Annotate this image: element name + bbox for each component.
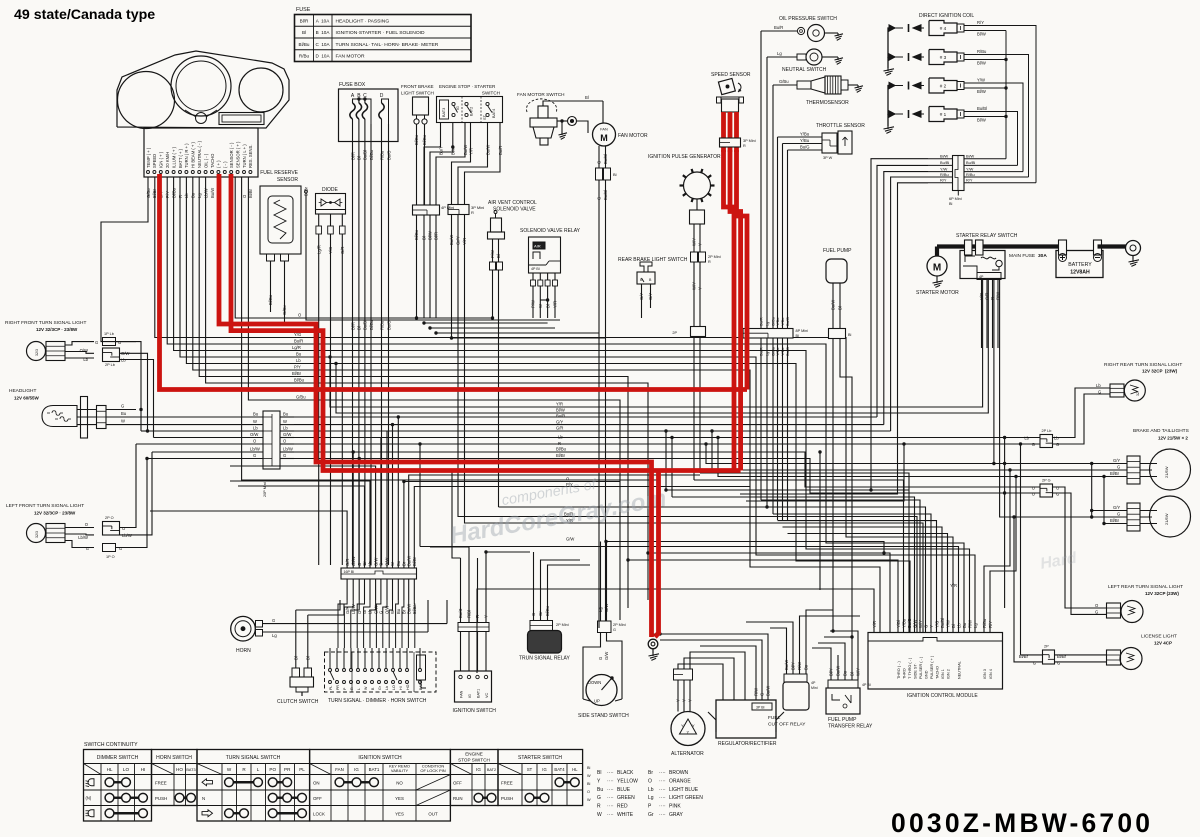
svg-text:M: M xyxy=(600,133,608,143)
fan switch side wire to ring terminal xyxy=(557,120,568,122)
svg-text:(N): (N) xyxy=(86,796,92,801)
svg-text:O: O xyxy=(648,778,652,784)
svg-text:Lb: Lb xyxy=(1096,383,1101,388)
svg-text:32: 32 xyxy=(1136,392,1140,396)
wire from fuel reserve sensor G/Bu xyxy=(284,261,286,322)
svg-text:FUSE: FUSE xyxy=(296,7,311,13)
svg-text:Y/W: Y/W xyxy=(977,78,985,83)
svg-text:SWITCH: SWITCH xyxy=(482,91,500,96)
svg-text:Y/W: Y/W xyxy=(945,620,950,628)
6P left wire Bu/Bl to lower band xyxy=(877,165,928,417)
svg-text:Lg: Lg xyxy=(648,795,654,801)
svg-text:# 4: # 4 xyxy=(940,26,947,31)
3P mini R connector xyxy=(448,205,469,215)
svg-text:DIMMER SWITCH: DIMMER SWITCH xyxy=(97,755,139,761)
svg-text:Lb: Lb xyxy=(296,358,301,363)
svg-text:C 10A: C 10A xyxy=(315,42,330,47)
svg-text:FAN: FAN xyxy=(335,767,344,772)
2P mini connector on pulse generator wires xyxy=(691,327,706,337)
svg-text:Bu/W: Bu/W xyxy=(210,188,215,198)
row y407 from starter relay wire xyxy=(330,280,983,407)
svg-text:Y: Y xyxy=(698,243,703,246)
starter switch sub-table xyxy=(498,750,583,806)
svg-text:3P BI: 3P BI xyxy=(756,706,765,710)
svg-text:Y/Bu: Y/Bu xyxy=(800,132,810,137)
svg-text:THRO ( - ): THRO ( - ) xyxy=(897,661,901,679)
svg-text:Bl/Bu: Bl/Bu xyxy=(294,378,305,383)
svg-text:Bl: Bl xyxy=(587,782,591,786)
svg-text:12V 60/55W: 12V 60/55W xyxy=(14,396,40,401)
svg-text:PUSH: PUSH xyxy=(501,796,513,801)
svg-text:ST: ST xyxy=(483,114,487,120)
svg-text:IG: IG xyxy=(468,694,472,698)
svg-text:MAIN FUSE: MAIN FUSE xyxy=(1009,253,1035,259)
front brake switch wires xyxy=(416,124,418,205)
svg-text:Y: Y xyxy=(698,287,703,290)
svg-text:RIGHT FRONT TURN SIGNAL LIGHT: RIGHT FRONT TURN SIGNAL LIGHT xyxy=(5,320,86,326)
svg-text:GRAY: GRAY xyxy=(669,812,683,818)
svg-text:4P: 4P xyxy=(979,275,984,279)
svg-text:Bl/Br: Bl/Br xyxy=(556,453,566,458)
svg-text:PINK: PINK xyxy=(669,804,681,810)
svg-text:R/Y: R/Y xyxy=(940,178,947,183)
ignition switch R wire to ICM Y/R pin xyxy=(477,589,874,673)
svg-text:FAN MOTOR SWITCH: FAN MOTOR SWITCH xyxy=(517,92,565,97)
red circuit: speed sensor bundle with jog xyxy=(724,150,735,471)
ground at oil pressure switch xyxy=(837,33,839,36)
svg-text:Bu: Bu xyxy=(396,608,401,614)
svg-text:G/R: G/R xyxy=(556,426,563,431)
svg-text:LEFT FRONT TURN SIGNAL LIGHT: LEFT FRONT TURN SIGNAL LIGHT xyxy=(6,503,84,509)
svg-text:# 3: # 3 xyxy=(940,55,947,60)
coil #3 wires xyxy=(964,54,990,56)
svg-text:Bl: Bl xyxy=(848,333,852,337)
svg-text:ENGINE STOP · STARTER: ENGINE STOP · STARTER xyxy=(439,84,496,89)
svg-text:BATT ( + ): BATT ( + ) xyxy=(178,148,183,168)
right rear signal staircase wires xyxy=(1053,388,1111,438)
svg-text:····: ···· xyxy=(607,770,614,776)
2P mini Bl connector on fuel pump wires xyxy=(829,329,846,339)
svg-text:Bl/Bu: Bl/Bu xyxy=(369,149,374,160)
svg-text:Bu/Bl: Bu/Bl xyxy=(603,190,608,200)
wire from front brake to 4P mini xyxy=(416,204,418,206)
turn signal vertical links on left xyxy=(140,410,142,432)
6P connector wire Bl/W xyxy=(928,158,953,160)
svg-text:Bu: Bu xyxy=(283,412,289,417)
svg-text:IG: IG xyxy=(476,767,481,772)
svg-text:W/Y: W/Y xyxy=(918,620,923,628)
svg-text:6P Mini: 6P Mini xyxy=(949,197,962,201)
svg-text:Bu: Bu xyxy=(296,352,302,357)
svg-text:····: ···· xyxy=(607,812,614,818)
svg-text:Bl/Bu: Bl/Bu xyxy=(369,319,374,330)
svg-text:Lb/W: Lb/W xyxy=(78,535,88,540)
svg-text:FUEL RESERVE: FUEL RESERVE xyxy=(260,170,298,176)
svg-text:G/W: G/W xyxy=(604,604,609,612)
svg-text:G: G xyxy=(1117,465,1120,470)
wire from x773 to ICM pin 931 xyxy=(773,514,931,633)
svg-text:FAN MOTOR: FAN MOTOR xyxy=(618,133,648,139)
air vent solenoid wires xyxy=(492,239,494,262)
svg-text:LOCK: LOCK xyxy=(313,811,325,816)
svg-text:2P: 2P xyxy=(672,331,677,335)
svg-text:SPEED: SPEED xyxy=(152,154,157,168)
16P wire O/W up xyxy=(386,431,388,568)
16P connector xyxy=(341,568,417,579)
thermosensor wire down xyxy=(772,85,774,514)
svg-text:TURN SIGNAL SWITCH: TURN SIGNAL SWITCH xyxy=(226,755,281,761)
svg-text:Lb: Lb xyxy=(1024,436,1029,441)
wire from x694 to ICM pin 903.5 xyxy=(694,480,904,633)
svg-text:Bl/W: Bl/W xyxy=(556,408,565,413)
16P wire G/W up xyxy=(230,466,376,568)
svg-text:FREE: FREE xyxy=(501,780,513,785)
svg-text:Lb/W: Lb/W xyxy=(351,556,356,566)
svg-text:LIGHT SWITCH: LIGHT SWITCH xyxy=(401,91,434,96)
svg-text:G: G xyxy=(121,404,124,409)
watermark xyxy=(444,465,668,549)
svg-text:Lg: Lg xyxy=(777,51,782,56)
speed sensor 3P connector over red xyxy=(720,138,741,147)
svg-text:LIGHT BLUE: LIGHT BLUE xyxy=(669,787,699,793)
svg-text:Y/R: Y/R xyxy=(462,238,467,245)
svg-text:Bu/R: Bu/R xyxy=(774,25,783,30)
svg-text:Bu/O: Bu/O xyxy=(386,150,391,160)
wire from x761 to ICM pin 920 xyxy=(761,500,920,633)
svg-text:G: G xyxy=(760,693,765,696)
wire from x498 to ICM pin 925.5 xyxy=(499,507,926,633)
svg-text:FUEL PUMP: FUEL PUMP xyxy=(823,248,852,254)
svg-text:W: W xyxy=(390,610,395,614)
fuel cut off relay wires xyxy=(786,640,788,674)
wire from cluster x173 via band row y350 to ICM xyxy=(174,177,970,633)
svg-text:Y: Y xyxy=(688,699,693,702)
engine stop switch contacts xyxy=(440,100,449,119)
svg-text:HEADLIGHT · PASSING: HEADLIGHT · PASSING xyxy=(336,18,390,24)
svg-text:G: G xyxy=(597,197,602,200)
svg-text:Y/R: Y/R xyxy=(556,402,563,407)
svg-text:Bu: Bu xyxy=(253,412,259,417)
svg-text:12V8AH: 12V8AH xyxy=(1070,270,1090,276)
svg-text:BAT4: BAT4 xyxy=(492,109,496,118)
svg-text:Lb: Lb xyxy=(83,357,88,362)
svg-text:SENSOR ( + ): SENSOR ( + ) xyxy=(235,141,240,168)
turn signal relay wires xyxy=(533,580,535,621)
row G/W to 2P Lb connector xyxy=(294,437,1040,439)
svg-text:R: R xyxy=(471,210,474,215)
16P connector lower wires xyxy=(346,579,348,600)
svg-text:W: W xyxy=(597,812,602,818)
svg-text:PULSER ( - ): PULSER ( - ) xyxy=(919,656,923,679)
fuel pump transfer relay xyxy=(826,688,860,714)
vertical x672 from band xyxy=(671,438,673,498)
svg-text:# 1: # 1 xyxy=(940,112,947,117)
svg-text:# 2: # 2 xyxy=(940,84,947,89)
svg-text:Bu/Bl: Bu/Bl xyxy=(940,160,949,165)
svg-text:TURN SIGNAL · DIMMER · HORN SW: TURN SIGNAL · DIMMER · HORN SWITCH xyxy=(328,698,427,704)
svg-text:····: ···· xyxy=(659,812,666,818)
svg-text:Bl: Bl xyxy=(545,304,550,308)
svg-text:O/W: O/W xyxy=(80,348,88,353)
svg-text:IGNITION SWITCH: IGNITION SWITCH xyxy=(453,708,497,714)
svg-text:Bl/R: Bl/R xyxy=(350,322,355,330)
svg-text:RES. SENS.: RES. SENS. xyxy=(248,144,253,168)
svg-text:12V 32/3CP · 23/8W: 12V 32/3CP · 23/8W xyxy=(36,327,78,332)
svg-text:IGN 4: IGN 4 xyxy=(989,669,993,679)
svg-text:RIGHT REAR TURN SIGNAL LIGHT: RIGHT REAR TURN SIGNAL LIGHT xyxy=(1104,362,1182,368)
svg-text:W: W xyxy=(121,419,125,424)
row 452 to 2P G via bend xyxy=(294,452,1040,487)
svg-text:21/5W: 21/5W xyxy=(1164,513,1169,525)
battery xyxy=(1056,251,1103,278)
svg-text:Bu/Bl: Bu/Bl xyxy=(940,618,945,628)
svg-text:G/Bu: G/Bu xyxy=(296,395,306,400)
wire from cluster to P/Y row xyxy=(199,177,628,608)
6P connector wire Bu/Bl xyxy=(928,164,953,166)
svg-text:Bu/G: Bu/G xyxy=(907,618,912,628)
svg-text:Br: Br xyxy=(648,770,653,776)
svg-text:BATTERY: BATTERY xyxy=(1068,262,1092,268)
svg-text:NEUTRAL SWITCH: NEUTRAL SWITCH xyxy=(782,67,827,73)
ICM right pins feed from coil-side verticals xyxy=(984,470,1010,633)
svg-text:Bl/Bu: Bl/Bu xyxy=(414,229,419,240)
svg-text:Bl/R: Bl/R xyxy=(434,232,439,240)
svg-text:P/Y: P/Y xyxy=(294,365,301,370)
svg-text:2P Lb: 2P Lb xyxy=(1042,429,1052,433)
spark plug gap #4 xyxy=(913,25,924,31)
svg-text:12V 32CP (23W): 12V 32CP (23W) xyxy=(1142,369,1178,374)
svg-text:LEFT REAR TURN SIGNAL LIGHT: LEFT REAR TURN SIGNAL LIGHT xyxy=(1108,584,1183,590)
neutral switch wire down xyxy=(766,57,768,507)
6P left wire Y/W to lower band xyxy=(884,172,928,425)
svg-text:G/R: G/R xyxy=(345,607,350,614)
svg-text:FRONT BRAKE: FRONT BRAKE xyxy=(401,84,434,89)
svg-text:IG: IG xyxy=(354,767,359,772)
svg-text:WHITE: WHITE xyxy=(617,812,634,818)
svg-text:R/Bu: R/Bu xyxy=(966,172,975,177)
wire from cluster to Bl/Br row xyxy=(206,177,648,600)
svg-text:SENSOR ( - ): SENSOR ( - ) xyxy=(229,142,234,168)
svg-text:····: ···· xyxy=(659,787,666,793)
6P mini connector xyxy=(953,156,965,191)
svg-text:Bu: Bu xyxy=(597,787,603,793)
svg-text:Bl: Bl xyxy=(293,656,298,660)
svg-text:R/Bu: R/Bu xyxy=(982,618,987,628)
svg-text:Bu/Bl: Bu/Bl xyxy=(363,320,368,330)
svg-text:Gr/Y: Gr/Y xyxy=(456,236,461,245)
6P left wire R/Y to lower band xyxy=(740,183,928,494)
svg-text:M: M xyxy=(933,263,941,274)
regulator rectifier xyxy=(716,700,776,738)
svg-text:DIODE: DIODE xyxy=(322,187,339,193)
svg-text:OIL PRESSURE SWITCH: OIL PRESSURE SWITCH xyxy=(779,16,837,22)
taillight 2 feed rows xyxy=(1092,464,1127,511)
starter relay terminals on cable xyxy=(965,240,973,255)
svg-text:RUN: RUN xyxy=(453,796,463,801)
svg-text:DOWN: DOWN xyxy=(588,680,601,685)
svg-text:G/Y: G/Y xyxy=(648,293,653,300)
dimmer row contacts xyxy=(105,778,114,787)
left rear signal feed wires xyxy=(1053,487,1107,608)
svg-text:Lb/W: Lb/W xyxy=(283,447,293,452)
svg-text:T·THRO ( - ): T·THRO ( - ) xyxy=(908,657,912,679)
svg-text:G/Y: G/Y xyxy=(1113,505,1120,510)
thermosensor xyxy=(773,84,797,86)
svg-text:2P O: 2P O xyxy=(105,516,114,520)
svg-text:Y: Y xyxy=(682,699,687,702)
svg-text:L: L xyxy=(357,688,361,690)
20P connector right side wires xyxy=(280,416,294,418)
svg-text:2P: 2P xyxy=(1044,645,1049,649)
svg-text:HORN: HORN xyxy=(236,648,251,654)
svg-text:TURN ( R + ): TURN ( R + ) xyxy=(184,143,189,168)
svg-text:HI: HI xyxy=(399,686,403,690)
vertical to license Bl/Br feed xyxy=(1020,444,1022,655)
svg-text:Bu: Bu xyxy=(121,411,127,416)
wire bends to 4P mini connector xyxy=(424,138,441,205)
svg-text:Bu/W: Bu/W xyxy=(784,660,789,670)
svg-text:G: G xyxy=(119,546,122,551)
svg-text:Bl/W: Bl/W xyxy=(977,118,986,123)
svg-text:NEUTRAL: NEUTRAL xyxy=(957,661,961,679)
svg-text:G: G xyxy=(1056,492,1059,497)
svg-text:R/W: R/W xyxy=(967,620,972,628)
extra band row to x746 xyxy=(746,444,904,501)
16P wire G up xyxy=(380,438,382,569)
svg-text:HI BEAM ( + ): HI BEAM ( + ) xyxy=(191,141,196,168)
turn signal relay xyxy=(530,621,553,631)
svg-text:Bu/Bl: Bu/Bl xyxy=(966,160,975,165)
svg-text:OFF: OFF xyxy=(313,796,322,801)
wire row y546.5 long xyxy=(420,547,959,633)
svg-text:4P: 4P xyxy=(811,681,816,685)
svg-text:Mini: Mini xyxy=(811,686,818,690)
svg-text:21/5W: 21/5W xyxy=(1164,466,1169,478)
svg-text:Bl/W: Bl/W xyxy=(977,89,986,94)
svg-text:G: G xyxy=(1033,661,1036,666)
svg-text:Y/R: Y/R xyxy=(950,583,957,588)
clutch switch wires xyxy=(295,610,297,668)
starter relay output wires xyxy=(977,273,1001,280)
coil wire verticals joining 6P connector right side xyxy=(985,158,1006,160)
svg-text:····: ···· xyxy=(607,795,614,801)
svg-text:CLUTCH SWITCH: CLUTCH SWITCH xyxy=(277,699,319,705)
svg-text:G/W: G/W xyxy=(566,537,574,542)
svg-text:G: G xyxy=(597,161,602,164)
svg-text:12V 32/3CP · 23/8W: 12V 32/3CP · 23/8W xyxy=(34,511,76,516)
cluster connector box xyxy=(144,128,258,177)
svg-text:49 state/Canada type: 49 state/Canada type xyxy=(14,7,155,23)
svg-text:32/3: 32/3 xyxy=(35,349,39,356)
svg-text:Bl: Bl xyxy=(613,172,617,177)
fan motor wires down xyxy=(598,146,600,168)
svg-text:Bl/W: Bl/W xyxy=(977,61,986,66)
svg-text:Bl: Bl xyxy=(796,334,800,338)
16P wire W up xyxy=(392,425,394,568)
fan switch top wire Bl xyxy=(543,101,603,106)
svg-text:HO: HO xyxy=(406,684,410,690)
svg-text:D: D xyxy=(380,93,384,99)
svg-text:GND: GND xyxy=(924,670,928,679)
svg-text:Bl/Br: Bl/Br xyxy=(412,556,417,566)
svg-text:Lg: Lg xyxy=(973,623,978,628)
svg-text:Y/Bu: Y/Bu xyxy=(901,618,906,628)
svg-text:TRUN SIGNAL RELAY: TRUN SIGNAL RELAY xyxy=(519,656,571,662)
svg-text:R/Bl: R/Bl xyxy=(467,610,472,618)
svg-text:Bu: Bu xyxy=(962,622,967,628)
svg-text:BAT1: BAT1 xyxy=(476,689,480,698)
svg-text:ON: ON xyxy=(313,780,320,785)
taillight bulb 1 xyxy=(1127,456,1140,484)
20P mini connector xyxy=(263,411,280,469)
svg-text:Bl: Bl xyxy=(302,30,306,35)
svg-text:R/Bu: R/Bu xyxy=(379,320,384,330)
svg-text:G: G xyxy=(1032,442,1035,447)
svg-text:Bu: Bu xyxy=(804,664,809,670)
center gauge outer xyxy=(171,56,231,116)
svg-text:IGN 2: IGN 2 xyxy=(946,669,950,679)
svg-text:G/W: G/W xyxy=(604,652,609,660)
wire Bl/Br right of cluster xyxy=(306,200,560,320)
svg-text:Bl/R: Bl/R xyxy=(350,152,355,160)
svg-text:Lb: Lb xyxy=(283,426,288,431)
svg-text:Bu/Bl: Bu/Bl xyxy=(977,106,987,111)
svg-text:LIGHT GREEN: LIGHT GREEN xyxy=(669,795,703,801)
svg-text:W: W xyxy=(253,419,257,424)
svg-text:BAT2: BAT2 xyxy=(470,107,474,116)
svg-text:BRAKE AND TAILLIGHTS: BRAKE AND TAILLIGHTS xyxy=(1133,428,1189,434)
svg-text:TEMP ( + ): TEMP ( + ) xyxy=(146,147,151,168)
svg-text:Bl/Bu: Bl/Bu xyxy=(299,42,310,47)
svg-text:R/W: R/W xyxy=(797,662,802,670)
svg-text:LO: LO xyxy=(392,685,396,690)
turn signal switch sub-table xyxy=(197,750,310,822)
dimmer rows icons xyxy=(88,779,94,786)
row y541 from side stand xyxy=(606,542,884,554)
svg-text:W: W xyxy=(283,419,287,424)
6P left wire Bl/W to lower band xyxy=(871,159,928,490)
svg-text:8P Mini: 8P Mini xyxy=(796,329,809,333)
svg-text:Bl: Bl xyxy=(850,672,855,676)
red circuit: horizontal H1 to cluster SPEED pin xyxy=(160,174,748,390)
svg-text:Y/G: Y/G xyxy=(934,621,939,628)
wire from x777 to ICM pin 936.5 xyxy=(778,521,937,633)
svg-text:G/Bu: G/Bu xyxy=(779,79,789,84)
svg-text:2P Mini: 2P Mini xyxy=(556,623,569,627)
svg-text:ORANGE: ORANGE xyxy=(669,778,691,784)
side stand wires xyxy=(583,633,601,700)
svg-text:R/Y: R/Y xyxy=(977,20,984,25)
svg-text:STARTER RELAY SWITCH: STARTER RELAY SWITCH xyxy=(956,233,1018,239)
svg-text:PULSER ( + ): PULSER ( + ) xyxy=(930,655,934,679)
svg-text:BAT2: BAT2 xyxy=(487,768,496,772)
svg-text:Bl/Br: Bl/Br xyxy=(1110,518,1120,523)
svg-text:Bl/Bu: Bl/Bu xyxy=(545,605,550,616)
svg-text:TURN ( L + ): TURN ( L + ) xyxy=(242,144,247,168)
svg-text:SWITCH CONTINUITY: SWITCH CONTINUITY xyxy=(84,742,138,748)
svg-text:PR: PR xyxy=(284,767,291,772)
svg-text:REAR BRAKE LIGHT SWITCH: REAR BRAKE LIGHT SWITCH xyxy=(618,257,688,263)
svg-text:BAT3: BAT3 xyxy=(442,108,446,117)
svg-text:Bl/Bu: Bl/Bu xyxy=(422,134,427,145)
svg-text:Y: Y xyxy=(676,699,681,702)
clutch switch xyxy=(292,668,300,677)
16P wire O up xyxy=(358,459,360,569)
svg-text:Bu: Bu xyxy=(396,560,401,566)
svg-text:STARTER MOTOR: STARTER MOTOR xyxy=(916,290,959,296)
svg-text:PR: PR xyxy=(336,685,340,690)
svg-text:AIR VENT CONTROL: AIR VENT CONTROL xyxy=(488,200,537,206)
